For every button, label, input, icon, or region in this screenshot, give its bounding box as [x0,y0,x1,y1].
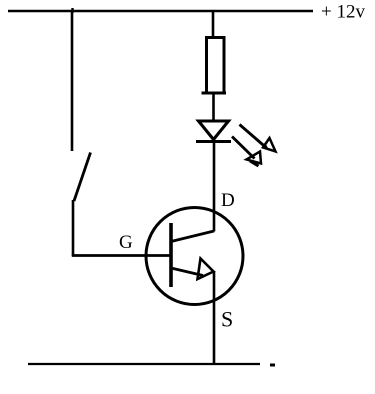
transistor Q1 body circle [146,208,243,305]
transistor Q1 source diagonal [171,268,203,276]
LED light arrow 2 head [247,152,262,164]
wire gate horizontal [72,254,171,257]
LED light arrow 1 head [263,138,276,152]
wire left branch lower (switch to corner) [72,200,75,256]
LED light arrow 1 head inner scribble [264,144,267,150]
LED light arrow 2 head bottom scribble [250,161,259,166]
transistor Q1 source arrowhead [198,259,214,280]
svg-text:S: S [221,307,233,332]
svg-text:G: G [119,232,133,253]
transistor Q1 drain diagonal [171,231,214,242]
switch SW1 open blade [74,153,91,202]
resistor R1 [202,36,227,94]
LED light arrow 2 shaft [232,137,255,159]
wire top +12V rail [8,10,313,12]
LED D1 cathode bar [196,140,231,143]
wire resistor to LED [212,93,215,121]
svg-text:+ 12v: + 12v [321,2,365,23]
wire bottom rail [28,363,260,365]
wire LED to drain junction [213,141,216,232]
wire rail to resistor [212,10,215,38]
node top-left junction tick [71,8,73,13]
LED light arrow 1 shaft [240,125,267,148]
wire source to bottom rail [213,271,216,365]
transistor Q1 base bar [169,223,173,287]
LED D1 anode triangle [199,121,229,140]
wire left branch upper (rail to switch) [71,10,74,151]
svg-text:D: D [221,190,235,211]
node stray dot right of bottom rail [270,364,275,367]
